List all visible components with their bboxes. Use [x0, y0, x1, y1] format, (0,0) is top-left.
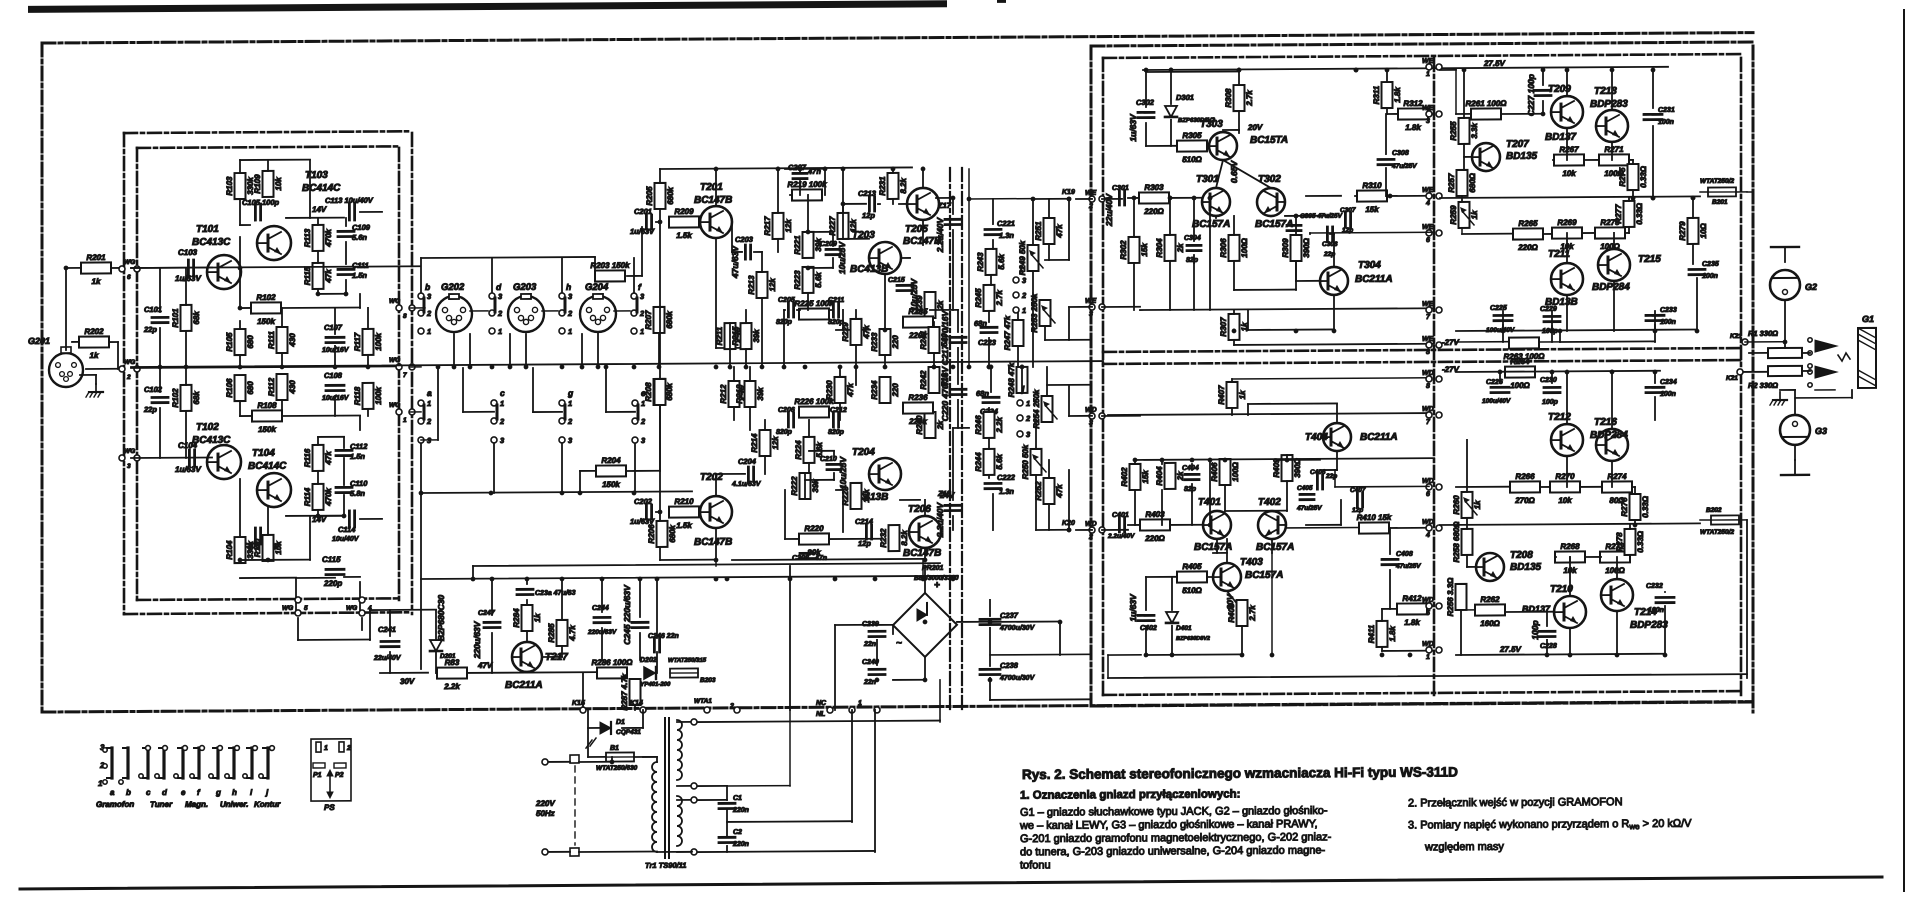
svg-text:680k: 680k: [665, 310, 674, 328]
svg-text:680k: 680k: [666, 186, 675, 204]
svg-text:R106: R106: [225, 378, 234, 398]
svg-text:R221: R221: [793, 235, 802, 255]
svg-text:R111: R111: [267, 330, 276, 349]
svg-text:R262: R262: [1480, 595, 1500, 604]
svg-text:R261 100Ω: R261 100Ω: [1466, 99, 1508, 108]
svg-text:R213: R213: [747, 275, 756, 295]
svg-text:C305 47u/25V: C305 47u/25V: [1300, 213, 1343, 220]
svg-text:BC211A: BC211A: [1355, 274, 1393, 285]
wire: [1233, 310, 1235, 314]
svg-text:WG: WG: [124, 259, 135, 266]
resistor R220: [799, 524, 829, 557]
svg-text:1.8k: 1.8k: [1404, 618, 1420, 627]
wire: [317, 218, 319, 225]
wire: [239, 199, 241, 225]
resistor R106: [225, 375, 255, 401]
wire: [924, 566, 926, 593]
wire: [1749, 352, 1768, 354]
svg-text:220V: 220V: [535, 799, 555, 808]
legend group Kontur: [250, 748, 253, 778]
wire: [1692, 198, 1694, 218]
transistor T104: [257, 473, 291, 507]
node WD6: [1426, 484, 1432, 490]
resistor R112: [267, 374, 297, 400]
svg-text:2: 2: [499, 417, 505, 426]
wire: [1336, 404, 1338, 423]
svg-text:1.8k: 1.8k: [1405, 123, 1421, 132]
svg-text:R305: R305: [1182, 131, 1202, 140]
svg-text:1.3n: 1.3n: [999, 487, 1014, 496]
power box bottom rail: [1108, 674, 1747, 678]
svg-text:10u/40V: 10u/40V: [332, 536, 360, 543]
wire: [1700, 191, 1708, 193]
junction dots: [158, 365, 163, 370]
wire: [884, 274, 886, 330]
capacitor C207: [793, 172, 807, 175]
wire: [580, 470, 595, 472]
node WD2: [1089, 527, 1095, 533]
svg-text:680Ω: 680Ω: [1468, 172, 1477, 192]
svg-text:R241: R241: [919, 330, 928, 350]
resistor R102: [251, 293, 281, 326]
wire: [601, 579, 603, 612]
svg-text:R310: R310: [1362, 181, 1382, 190]
transformer taps: [677, 721, 692, 723]
svg-text:5.6n: 5.6n: [352, 233, 367, 242]
svg-text:R244: R244: [974, 452, 983, 472]
resistor R256: [1446, 577, 1467, 617]
svg-text:R410 15k: R410 15k: [1357, 513, 1392, 522]
resistor R267: [1554, 145, 1584, 178]
svg-text:0.33Ω: 0.33Ω: [1639, 165, 1648, 188]
svg-text:WD: WD: [1422, 370, 1434, 377]
mid rail upper: [1440, 196, 1700, 198]
outer frame top: [42, 33, 1753, 43]
svg-text:C234: C234: [1660, 379, 1677, 386]
svg-text:14V: 14V: [312, 205, 327, 214]
svg-text:T403: T403: [1240, 557, 1263, 568]
svg-text:B1: B1: [610, 745, 619, 752]
svg-text:C405: C405: [1297, 485, 1313, 492]
svg-text:BD135: BD135: [1506, 151, 1538, 162]
transistor T302: [1257, 188, 1285, 216]
resistor R268: [1555, 542, 1585, 575]
power amp outer dashed box: [1091, 42, 1753, 46]
resistor R109: [253, 171, 283, 197]
svg-text:BC157A: BC157A: [1245, 570, 1283, 581]
resistor R240: [915, 412, 945, 438]
wire: [1455, 70, 1457, 114]
resistor R279: [1678, 218, 1708, 244]
preamp outer dashed box: [124, 131, 412, 133]
svg-text:270Ω: 270Ω: [1514, 496, 1535, 505]
capacitor C234: [1646, 386, 1664, 389]
svg-text:R242: R242: [919, 370, 928, 390]
transistor T214: [1601, 579, 1633, 611]
transistor T403: [1213, 563, 1241, 591]
resistor R311: [1372, 82, 1402, 108]
svg-text:BC414C: BC414C: [248, 461, 287, 472]
svg-text:D301: D301: [1176, 93, 1194, 102]
resistor R242: [919, 367, 949, 393]
svg-text:47k: 47k: [862, 325, 871, 340]
capacitor C110: [336, 486, 352, 489]
node WD1: [1426, 647, 1432, 653]
svg-text:3: 3: [1026, 430, 1031, 439]
capacitor C224: [983, 396, 999, 399]
top small mark: [997, 0, 1006, 3]
svg-text:39k: 39k: [756, 387, 765, 401]
wire R201 to DIN area: [131, 266, 420, 268]
svg-text:8.2k: 8.2k: [899, 178, 908, 194]
wire: [785, 538, 799, 540]
transistor T301: [1202, 188, 1230, 216]
svg-text:47k: 47k: [1055, 224, 1064, 239]
svg-text:C221: C221: [997, 219, 1015, 228]
svg-text:0.33Ω: 0.33Ω: [1635, 202, 1644, 225]
svg-text:C247: C247: [478, 610, 496, 617]
svg-text:C232: C232: [1646, 583, 1663, 590]
svg-text:470k: 470k: [324, 228, 333, 247]
wire: [296, 577, 335, 579]
svg-text:R204: R204: [601, 456, 621, 465]
wire: [1566, 372, 1568, 424]
svg-text:Tr1 TS90/11: Tr1 TS90/11: [645, 861, 686, 870]
svg-text:C245 220u/63V: C245 220u/63V: [622, 584, 632, 645]
resistor R405: [1177, 562, 1207, 595]
svg-text:220Ω: 220Ω: [1517, 243, 1538, 252]
jack G1 body: [1858, 328, 1876, 388]
svg-text:R210: R210: [674, 497, 694, 506]
capacitor C215: [897, 284, 913, 287]
svg-text:R248 47k: R248 47k: [1007, 362, 1016, 397]
svg-text:R220: R220: [804, 524, 824, 533]
svg-text:j: j: [265, 788, 269, 797]
svg-text:R279: R279: [1678, 221, 1687, 241]
svg-text:220p: 220p: [323, 579, 342, 588]
svg-text:R102: R102: [256, 293, 276, 302]
svg-text:K19: K19: [1062, 189, 1075, 196]
capacitor C402: [1138, 614, 1154, 617]
svg-text:R287 4.7k: R287 4.7k: [620, 673, 629, 711]
svg-text:1. Oznaczenia gniazd przyłącze: 1. Oznaczenia gniazd przyłączeniowych:: [1020, 788, 1240, 801]
svg-text:100p: 100p: [1530, 620, 1540, 639]
svg-text:Gramofon: Gramofon: [96, 800, 134, 809]
resistor R207: [644, 307, 674, 333]
resistor R259: [1449, 202, 1479, 228]
node WE6: [1426, 230, 1432, 236]
svg-text:3: 3: [568, 292, 573, 301]
capacitor C209: [826, 248, 840, 251]
junction dots mid rails: [238, 266, 243, 271]
svg-text:2: 2: [567, 417, 573, 426]
svg-text:5: 5: [304, 605, 308, 612]
svg-text:R265: R265: [1518, 219, 1538, 228]
svg-text:f: f: [197, 788, 201, 797]
wire: [1306, 524, 1341, 526]
capacitor C302: [1138, 111, 1154, 114]
capacitor C307: [1344, 213, 1347, 227]
node WG6: [119, 266, 125, 272]
node WD5: [1426, 603, 1432, 609]
wire: [1128, 524, 1140, 526]
svg-text:1k: 1k: [1473, 500, 1482, 510]
svg-text:3: 3: [498, 292, 503, 301]
wire: [1076, 198, 1092, 200]
resistor R247: [1003, 315, 1023, 350]
capacitor C406: [1316, 475, 1319, 489]
svg-text:h: h: [566, 282, 571, 292]
svg-text:K20: K20: [1062, 520, 1075, 527]
node WD4: [1426, 525, 1432, 531]
svg-text:BC413B: BC413B: [850, 264, 888, 275]
svg-text:WTAT250/2: WTAT250/2: [1700, 529, 1734, 536]
resistor R239: [915, 292, 945, 318]
wire: [733, 367, 735, 381]
svg-text:Tuner: Tuner: [150, 800, 173, 809]
main vertical x660: [659, 169, 661, 560]
resistor R110: [253, 535, 283, 561]
svg-text:5.8n: 5.8n: [350, 489, 365, 498]
svg-text:220k: 220k: [908, 417, 927, 426]
svg-text:2: 2: [497, 309, 503, 318]
resistor R114: [303, 484, 333, 510]
wire WG1 right: [410, 411, 421, 413]
svg-text:T101: T101: [196, 224, 219, 235]
svg-text:7: 7: [403, 372, 407, 379]
LED D1: [586, 722, 611, 748]
svg-text:47n: 47n: [814, 555, 827, 562]
wire: [1076, 529, 1092, 531]
svg-text:47u/25V: 47u/25V: [1395, 563, 1421, 570]
wire: [884, 329, 886, 330]
capacitor C247: [484, 621, 500, 624]
wire WG7 right: [410, 366, 421, 368]
svg-text:BC211A: BC211A: [505, 680, 543, 691]
svg-text:Kontur: Kontur: [254, 800, 281, 809]
svg-text:15k: 15k: [1365, 205, 1379, 214]
node WG4: [359, 597, 365, 603]
transistor T208: [1476, 553, 1504, 581]
svg-text:WTA1: WTA1: [694, 698, 712, 705]
wire: [66, 267, 81, 269]
resistor R306: [1219, 235, 1249, 261]
legend arrow: [327, 770, 333, 798]
svg-text:6: 6: [1426, 237, 1430, 244]
svg-text:220n: 220n: [732, 841, 749, 848]
svg-text:2k: 2k: [1176, 243, 1185, 254]
svg-text:R222: R222: [790, 476, 799, 496]
svg-text:T102: T102: [196, 422, 219, 433]
resistor R106b: [303, 445, 333, 471]
svg-text:R217: R217: [763, 216, 772, 236]
wire: [1747, 191, 1753, 193]
svg-text:22p: 22p: [143, 405, 157, 414]
svg-text:K14: K14: [630, 700, 643, 707]
svg-text:WE: WE: [1422, 301, 1434, 308]
svg-text:BDP284: BDP284: [1592, 282, 1630, 293]
node WG5: [295, 597, 301, 603]
capacitor C222: [985, 482, 1001, 485]
node WG1: [396, 409, 402, 415]
wire: [1466, 518, 1468, 529]
svg-text:R251: R251: [1034, 221, 1043, 241]
svg-text:do tunera, G-203 gniazdo uniwe: do tunera, G-203 gniazdo uniwersalne, G-…: [1020, 845, 1325, 859]
wire bridge to caps: [957, 621, 990, 623]
wire: [732, 251, 742, 253]
svg-text:100n: 100n: [1702, 273, 1718, 280]
svg-text:680k: 680k: [668, 524, 677, 542]
svg-text:12k: 12k: [862, 489, 871, 503]
resistor R287: [620, 673, 640, 711]
svg-text:T206: T206: [908, 504, 931, 515]
legend group Magn.: [181, 748, 184, 778]
svg-text:WD: WD: [1422, 406, 1434, 413]
svg-text:BD137: BD137: [1545, 132, 1577, 143]
svg-text:3: 3: [640, 292, 645, 301]
svg-text:0.33Ω: 0.33Ω: [1636, 530, 1645, 553]
svg-text:R260: R260: [1452, 495, 1461, 515]
svg-text:C228: C228: [1540, 643, 1557, 650]
svg-text:10k: 10k: [274, 541, 283, 555]
svg-text:C229: C229: [1540, 306, 1557, 313]
svg-text:1: 1: [568, 327, 572, 336]
svg-text:T204: T204: [852, 447, 875, 458]
wire: [239, 479, 241, 537]
resistor R203: [590, 261, 630, 282]
wire base T101: [131, 267, 212, 269]
svg-text:NC: NC: [816, 700, 827, 707]
svg-text:47k: 47k: [846, 383, 855, 398]
svg-text:R269: R269: [1557, 218, 1577, 227]
wire elbows: [463, 411, 494, 413]
svg-text:R214: R214: [750, 433, 759, 453]
legend group Uniwer.: [216, 748, 219, 778]
svg-text:R231: R231: [878, 176, 887, 196]
resistor R226: [794, 397, 834, 418]
resistor R251: [1034, 218, 1064, 244]
svg-text:150k: 150k: [602, 480, 620, 489]
capacitor C106: [254, 528, 257, 544]
svg-text:T104: T104: [252, 448, 275, 459]
resistor R221: [793, 232, 823, 258]
svg-text:WE: WE: [1422, 105, 1434, 112]
svg-text:12k: 12k: [784, 219, 793, 233]
resistor R208b: [655, 379, 666, 405]
wire: [1146, 70, 1239, 73]
capacitor C220: [950, 388, 966, 391]
svg-text:R245: R245: [974, 288, 983, 308]
mains terminal: [542, 759, 548, 765]
transistor T304: [1320, 267, 1348, 295]
svg-text:WD: WD: [1422, 641, 1434, 648]
svg-text:a: a: [427, 388, 432, 398]
svg-text:WG: WG: [389, 298, 400, 305]
svg-text:68n: 68n: [976, 389, 989, 398]
node WG7: [396, 364, 402, 370]
svg-text:Uniwer.: Uniwer.: [220, 800, 248, 809]
resistor R212: [719, 381, 749, 407]
svg-text:C404: C404: [1182, 465, 1199, 472]
svg-text:C402: C402: [1140, 625, 1157, 632]
capacitor C105: [254, 204, 257, 220]
svg-text:C301: C301: [1112, 185, 1129, 192]
resistor R248: [1007, 362, 1027, 397]
svg-text:R234: R234: [870, 380, 879, 400]
wire: [1566, 70, 1568, 96]
capacitor C229: [1544, 315, 1560, 318]
svg-text:R257: R257: [1447, 173, 1456, 193]
transistor T206: [909, 516, 941, 548]
svg-text:1: 1: [98, 779, 103, 788]
svg-text:G203: G203: [513, 282, 537, 293]
svg-text:1u/63V: 1u/63V: [1128, 593, 1138, 622]
svg-text:R218: R218: [735, 384, 744, 404]
connector G203: [508, 294, 544, 332]
svg-text:100Ω: 100Ω: [1510, 381, 1530, 390]
svg-text:G3: G3: [1815, 426, 1827, 436]
node WG8: [396, 305, 402, 311]
svg-text:R219 100k: R219 100k: [787, 180, 827, 189]
transistor T213: [1596, 110, 1628, 142]
svg-text:T303: T303: [1200, 119, 1223, 130]
svg-text:3: 3: [568, 436, 573, 445]
resistor R103: [225, 173, 255, 199]
node K14: [640, 707, 646, 713]
resistor R108: [252, 401, 282, 434]
capacitor C101: [152, 316, 168, 319]
wire: [470, 310, 488, 312]
svg-text:20V: 20V: [1225, 593, 1235, 611]
svg-text:R205: R205: [645, 186, 654, 206]
resistor R263: [1504, 337, 1546, 361]
svg-text:BD135: BD135: [1510, 562, 1542, 573]
svg-text:T208: T208: [1510, 550, 1533, 561]
capacitor C226: [1491, 386, 1509, 389]
svg-text:b: b: [425, 282, 430, 292]
capacitor C108: [326, 384, 344, 387]
svg-text:BC147B: BC147B: [694, 537, 732, 548]
svg-text:1: 1: [403, 417, 407, 424]
svg-text:1k: 1k: [1470, 210, 1479, 220]
wire: [1133, 198, 1135, 237]
resistor R270: [1550, 472, 1580, 505]
connector G2: [1770, 270, 1800, 300]
capacitor C221: [985, 228, 1001, 231]
svg-text:220: 220: [891, 335, 900, 350]
resistor R2: [1768, 366, 1802, 376]
wire: [1017, 313, 1019, 320]
transistor T202: [700, 496, 732, 528]
svg-text:7: 7: [1426, 314, 1431, 321]
svg-text:g: g: [567, 388, 574, 398]
wire: [1461, 228, 1463, 234]
wire K19 line left: [969, 198, 1033, 200]
resistor R118: [353, 383, 383, 409]
mid rail lower: [1440, 523, 1700, 525]
svg-text:820p: 820p: [828, 429, 845, 436]
resistor R249: [1018, 240, 1038, 275]
wire: [1456, 113, 1471, 115]
capacitor C238: [980, 668, 1000, 671]
wire: [1146, 576, 1177, 578]
svg-text:R275: R275: [1618, 167, 1627, 187]
svg-text:R110: R110: [253, 538, 262, 557]
svg-text:1: 1: [858, 700, 862, 707]
svg-text:82p: 82p: [1184, 486, 1197, 493]
resistor R107: [171, 385, 201, 411]
svg-text:WD: WD: [1422, 597, 1434, 604]
